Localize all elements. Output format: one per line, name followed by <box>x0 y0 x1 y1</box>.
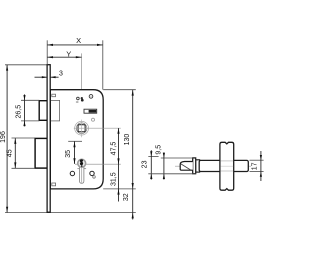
small pin lower right <box>93 176 96 179</box>
cylinder tail centerline <box>81 167 83 183</box>
wire: case bottom extension line to right dims <box>103 188 136 190</box>
cylinder tail slot <box>80 166 84 183</box>
dimension 130 and 32 (shared line) <box>123 90 134 220</box>
side view centerline <box>175 165 251 167</box>
flank hole left <box>70 171 74 175</box>
dimension 35 <box>65 141 82 164</box>
wire: case top extension line to right dims <box>103 89 136 91</box>
dimension 196 <box>0 65 8 213</box>
slide bar slot <box>84 109 97 113</box>
latch collar <box>193 158 196 174</box>
dimension 47,5 and 31,5 (shared line) <box>111 128 120 201</box>
svg-text:32: 32 <box>123 193 130 201</box>
follower square spindle hole <box>78 125 85 132</box>
svg-text:35: 35 <box>65 150 72 158</box>
wire: faceplate bottom extension line <box>5 212 136 214</box>
svg-text:26,5: 26,5 <box>15 105 22 119</box>
latch bevel line <box>181 164 191 170</box>
wire: vertical centerline through follower and cylinder <box>81 53 83 186</box>
dimension 23 <box>142 150 159 179</box>
faint bar lines through plate <box>221 160 234 162</box>
pin hole light <box>92 118 95 121</box>
keyway dark <box>80 159 83 165</box>
flank hole right <box>90 171 94 175</box>
wire: cylinder horizontal centerline / extension to right dims <box>75 163 121 165</box>
svg-text:31,5: 31,5 <box>111 172 118 186</box>
wire: ext line 9,5 to collar <box>161 157 193 159</box>
screw slot top on faceplate <box>52 94 56 97</box>
dimension 3 (faceplate thickness) <box>35 70 64 78</box>
svg-text:X: X <box>76 36 81 45</box>
deadbolt head protruding <box>35 138 47 168</box>
svg-text:47,5: 47,5 <box>111 142 118 156</box>
follower crosshair vertical <box>81 120 83 138</box>
dimension 45 <box>6 138 35 168</box>
follower crosshair horizontal / extension to 47,5 dim <box>74 127 121 129</box>
dimension 26,5 <box>15 94 39 126</box>
svg-text:17: 17 <box>252 162 259 170</box>
svg-text:Y: Y <box>66 49 71 58</box>
follower hub circles <box>75 121 89 135</box>
cylinder ring <box>78 159 86 167</box>
case side bar step segment <box>196 160 200 172</box>
latch bolt body inside case <box>50 100 59 121</box>
dimension X <box>47 36 103 90</box>
faceplate side profile plate <box>220 142 234 190</box>
svg-text:23: 23 <box>142 160 149 168</box>
latch bolt head protruding <box>39 101 47 121</box>
svg-text:130: 130 <box>124 134 131 146</box>
screw hole top right <box>89 95 93 99</box>
slide block dark <box>89 110 97 113</box>
dimension 17 <box>250 151 264 181</box>
svg-text:45: 45 <box>6 149 13 157</box>
latch bolt tip side view <box>180 162 193 171</box>
faceplate front view <box>47 65 50 213</box>
svg-text:196: 196 <box>0 131 7 143</box>
dimension Y <box>47 49 81 58</box>
stop pin dark detail <box>81 97 83 99</box>
cylinder shoulders <box>77 168 79 170</box>
spring detail ring <box>77 97 80 100</box>
wire: shared bottom ext line for 23 and 9,5 <box>148 173 196 175</box>
screw slot bottom on faceplate <box>52 183 56 186</box>
wire: faceplate top extension line <box>5 64 47 66</box>
lock case outline <box>50 90 103 189</box>
faint detail under pin <box>76 101 79 103</box>
dimension 9,5 <box>156 145 165 180</box>
svg-text:3: 3 <box>59 70 63 77</box>
svg-text:9,5: 9,5 <box>156 145 163 155</box>
case side bar main <box>199 160 248 171</box>
